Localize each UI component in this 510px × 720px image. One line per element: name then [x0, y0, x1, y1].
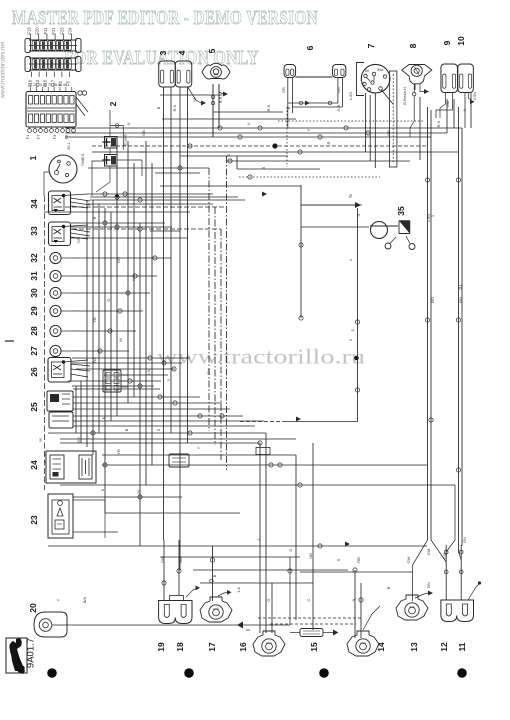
svg-text:1.6N: 1.6N — [426, 214, 431, 223]
svg-text:7: 7 — [366, 43, 376, 48]
svg-text:B: B — [212, 574, 217, 577]
svg-text:N: N — [348, 194, 353, 197]
svg-text:M: M — [136, 490, 141, 493]
svg-text:9: 9 — [442, 40, 452, 45]
svg-text:E: E — [226, 153, 231, 156]
svg-text:2.5N: 2.5N — [472, 92, 477, 101]
svg-text:F20: F20 — [35, 27, 40, 35]
svg-text:RB: RB — [356, 557, 361, 563]
svg-text:Y/R: Y/R — [76, 237, 81, 244]
svg-text:YB: YB — [92, 317, 97, 323]
svg-text:R.N: R.N — [436, 120, 441, 127]
svg-text:15: 15 — [309, 642, 319, 652]
svg-text:S: S — [336, 558, 341, 561]
svg-text:30.1: 30.1 — [67, 142, 71, 149]
svg-text:31: 31 — [29, 271, 39, 281]
svg-text:J: J — [256, 539, 261, 541]
svg-text:LN: LN — [146, 369, 151, 374]
svg-text:GE: GE — [76, 437, 81, 443]
svg-text:F11: F11 — [43, 27, 48, 35]
svg-text:N: N — [351, 598, 356, 601]
svg-text:GB: GB — [386, 130, 391, 136]
svg-text:BO: BO — [430, 297, 435, 303]
svg-text:GM: GM — [442, 553, 447, 559]
svg-text:6: 6 — [305, 45, 315, 50]
svg-text:GM: GM — [426, 549, 431, 555]
svg-text:H: H — [92, 216, 97, 219]
svg-text:5: 5 — [207, 48, 217, 53]
svg-text:GR: GR — [116, 257, 121, 263]
svg-text:B/A: B/A — [82, 596, 87, 603]
svg-text:www.maskinrutes.net: www.maskinrutes.net — [1, 41, 7, 99]
svg-text:RO: RO — [458, 297, 463, 303]
svg-text:11: 11 — [457, 642, 467, 651]
svg-text:12: 12 — [439, 642, 449, 652]
svg-text:23: 23 — [29, 515, 39, 525]
svg-text:B: B — [386, 586, 391, 589]
svg-text:1.5N: 1.5N — [348, 92, 353, 101]
svg-text:Y: Y — [166, 378, 171, 381]
svg-text:Y/MB 6: Y/MB 6 — [81, 154, 85, 166]
svg-text:25: 25 — [29, 402, 39, 412]
svg-text:GR: GR — [337, 87, 341, 93]
svg-text:28: 28 — [29, 326, 39, 336]
svg-text:14: 14 — [376, 642, 386, 652]
svg-text:RN: RN — [426, 582, 431, 588]
svg-text:GN: GN — [462, 537, 467, 543]
svg-text:NZ: NZ — [92, 357, 97, 363]
svg-text:N: N — [100, 488, 105, 491]
svg-text:G.B: G.B — [336, 104, 341, 111]
svg-text:YR: YR — [116, 449, 121, 455]
svg-text:R: R — [326, 141, 331, 144]
svg-text:www.tractorillo.ru: www.tractorillo.ru — [157, 345, 365, 369]
svg-text:35: 35 — [396, 206, 406, 216]
svg-text:K: K — [101, 416, 106, 419]
svg-text:Y: Y — [306, 128, 311, 131]
svg-text:V: V — [246, 122, 251, 125]
svg-text:2: 2 — [108, 101, 118, 106]
svg-text:B.Rosw.H: B.Rosw.H — [402, 87, 407, 105]
svg-text:32: 32 — [29, 253, 39, 263]
svg-text:Y: Y — [196, 446, 201, 449]
svg-text:GN: GN — [206, 369, 211, 375]
svg-text:S: S — [156, 428, 161, 431]
svg-text:C: C — [306, 598, 311, 601]
svg-text:17: 17 — [207, 642, 217, 652]
svg-text:NB: NB — [308, 553, 313, 559]
svg-text:F21: F21 — [51, 27, 56, 35]
svg-text:M: M — [192, 98, 197, 101]
svg-text:4: 4 — [177, 50, 187, 55]
svg-text:18: 18 — [175, 642, 185, 652]
svg-text:30a: 30a — [377, 68, 384, 72]
svg-text:29: 29 — [29, 306, 39, 316]
svg-text:B: B — [156, 106, 161, 109]
svg-text:MASTER PDF EDITOR - DEMO VERSI: MASTER PDF EDITOR - DEMO VERSION — [12, 8, 318, 29]
svg-text:Y: Y — [131, 278, 136, 281]
svg-text:27: 27 — [29, 346, 39, 356]
svg-text:50: 50 — [365, 69, 369, 73]
svg-text:B: B — [261, 166, 266, 169]
svg-text:G: G — [288, 548, 293, 551]
svg-text:H: H — [38, 438, 43, 441]
svg-text:8: 8 — [408, 43, 418, 48]
svg-text:R.N: R.N — [266, 104, 271, 111]
svg-text:B: B — [124, 428, 129, 431]
svg-text:10 15 30 50 75 58 54 49: 10 15 30 50 75 58 54 49 — [28, 83, 67, 87]
svg-text:33: 33 — [29, 226, 39, 236]
svg-text:10: 10 — [456, 36, 466, 46]
svg-text:9A01.7: 9A01.7 — [26, 638, 37, 668]
svg-text:G: G — [266, 598, 271, 601]
svg-text:GB: GB — [141, 130, 146, 136]
svg-text:N: N — [126, 122, 131, 125]
svg-text:34: 34 — [29, 199, 39, 209]
svg-text:16: 16 — [238, 642, 248, 652]
svg-text:GB: GB — [160, 557, 165, 563]
svg-text:1: 1 — [28, 155, 38, 160]
svg-text:W: W — [118, 338, 123, 342]
svg-text:G: G — [106, 298, 111, 301]
svg-text:GM: GM — [446, 101, 450, 107]
svg-text:B: B — [286, 106, 291, 109]
svg-text:3: 3 — [158, 50, 168, 55]
svg-text:20: 20 — [28, 603, 38, 613]
svg-text:26: 26 — [29, 367, 39, 377]
svg-text:F23: F23 — [59, 27, 64, 35]
svg-text:F1: F1 — [25, 134, 30, 139]
svg-text:GR: GR — [282, 87, 286, 93]
svg-text:GB: GB — [178, 557, 183, 563]
svg-text:F3: F3 — [52, 134, 57, 139]
svg-text:1.8: 1.8 — [236, 586, 241, 592]
svg-text:GW: GW — [406, 556, 411, 563]
svg-text:24: 24 — [29, 460, 39, 470]
svg-text:B 6: B 6 — [218, 96, 223, 103]
svg-text:30: 30 — [29, 288, 39, 298]
svg-text:F7: F7 — [36, 134, 41, 139]
svg-text:13: 13 — [409, 642, 419, 652]
svg-text:19: 19 — [156, 642, 166, 652]
svg-text:N: N — [462, 108, 467, 111]
svg-text:R.N: R.N — [172, 104, 177, 111]
svg-text:B.sw.6: B.sw.6 — [124, 134, 128, 145]
svg-text:F24: F24 — [68, 27, 73, 35]
svg-text:N: N — [356, 213, 361, 216]
svg-text:F13: F13 — [27, 27, 32, 35]
